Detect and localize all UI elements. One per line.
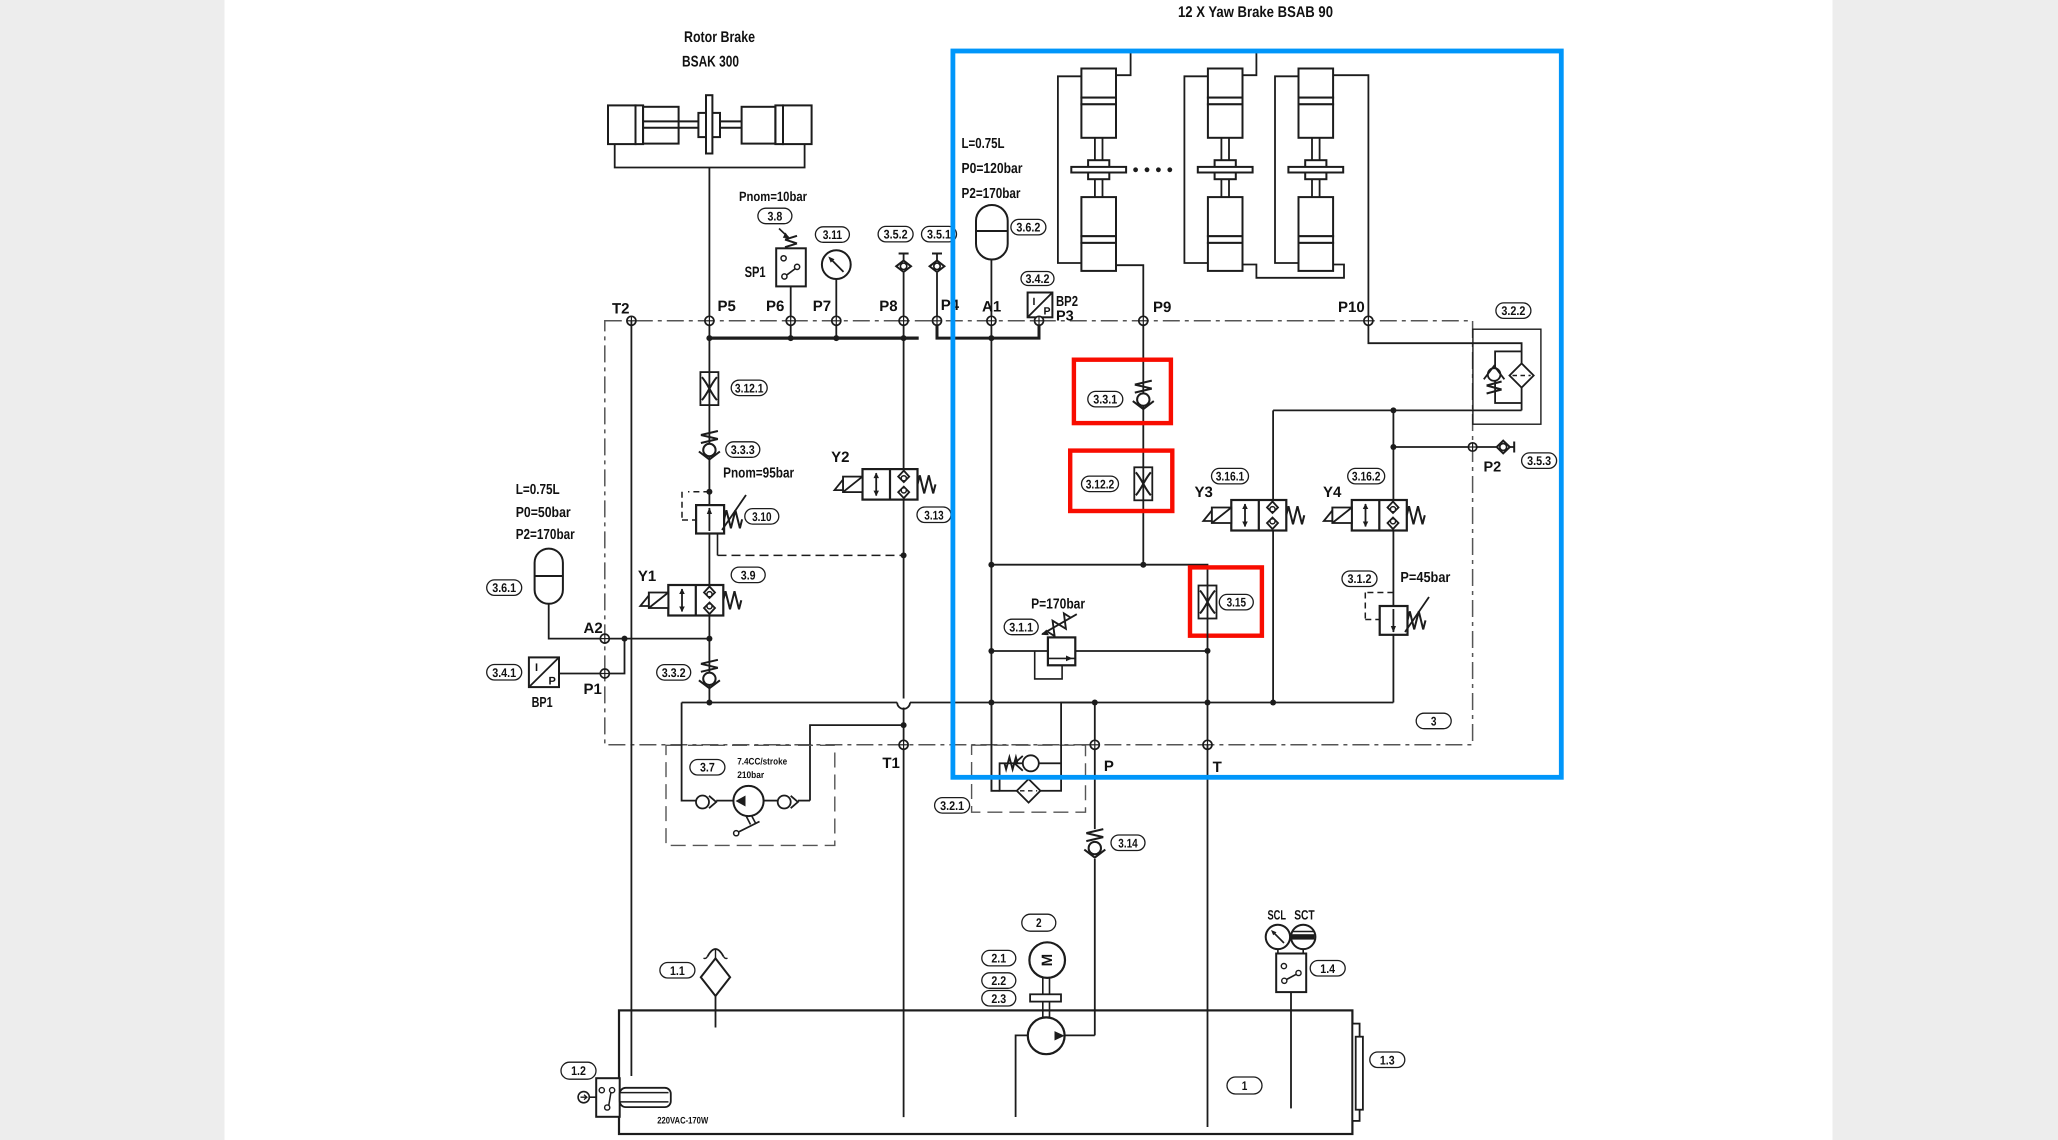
wire pump discharge riser xyxy=(810,725,904,801)
svg-text:M: M xyxy=(1039,954,1056,967)
filter element diamond of 3.2.1 xyxy=(1017,779,1041,803)
wire rotor brake bracket xyxy=(615,144,805,167)
svg-text:SP1: SP1 xyxy=(745,264,766,281)
solenoid valve Y2 3.13 xyxy=(863,469,918,500)
svg-text:P1: P1 xyxy=(584,681,602,698)
switch box 1.4 xyxy=(1277,949,1279,956)
accumulator 3.6.2 xyxy=(976,205,1008,260)
gauge SCL xyxy=(1266,925,1290,949)
node P1 xyxy=(600,669,609,678)
yaw brake cylinder 1 xyxy=(1058,69,1126,271)
wire Y4 column xyxy=(1392,410,1394,500)
check valve 3.3.3 xyxy=(701,431,718,443)
node T1 xyxy=(899,740,908,749)
svg-text:SCT: SCT xyxy=(1294,908,1315,923)
wire cylinder2-cylinder3 bottom connector xyxy=(1243,265,1345,278)
motor shaft and coupling 2.2/2.3 xyxy=(1042,978,1044,1018)
svg-text:Y2: Y2 xyxy=(831,449,849,466)
svg-text:P2: P2 xyxy=(1484,460,1502,476)
node P10 xyxy=(1364,316,1373,325)
svg-text:P3: P3 xyxy=(1056,309,1074,325)
bypass check valve of 3.2.1 xyxy=(1023,755,1039,771)
breather 1.1 xyxy=(715,996,717,1028)
svg-text:1.3: 1.3 xyxy=(1380,1053,1395,1067)
wire BP1 to P1 xyxy=(559,639,625,674)
svg-text:3.5.3: 3.5.3 xyxy=(1527,454,1551,468)
throttle 3.12.2 xyxy=(1134,467,1152,500)
svg-text:3.1.1: 3.1.1 xyxy=(1009,621,1033,635)
wire P2 branch xyxy=(1393,446,1496,448)
wire into filter 3.2.1 xyxy=(991,703,999,791)
wire A1 to 3.15 header y564.7 xyxy=(991,565,1207,585)
node A1 xyxy=(987,316,996,325)
wire 3.10 drain to pilot dash xyxy=(717,534,719,556)
svg-text:L=0.75L: L=0.75L xyxy=(516,482,560,498)
svg-text:P8: P8 xyxy=(879,298,897,315)
svg-text:P2=170bar: P2=170bar xyxy=(516,527,575,543)
wire accumulator to A2 xyxy=(549,604,710,639)
wire P10 to filter 3.2.2 xyxy=(1368,321,1521,352)
svg-text:7.4CC/stroke: 7.4CC/stroke xyxy=(737,757,787,768)
check valve 3.3.2 xyxy=(701,660,718,672)
svg-text:P2=170bar: P2=170bar xyxy=(962,186,1021,202)
wire P8/T1 column xyxy=(903,273,905,469)
svg-text:3.5.2: 3.5.2 xyxy=(884,228,908,242)
label 3 xyxy=(1416,713,1451,729)
tank 1 xyxy=(619,1010,1352,1134)
svg-text:BP1: BP1 xyxy=(532,695,553,711)
svg-text:3.15: 3.15 xyxy=(1227,596,1246,610)
svg-text:3.4.1: 3.4.1 xyxy=(492,666,516,680)
svg-text:P5: P5 xyxy=(718,298,736,315)
sensor BP2 3.4.2 xyxy=(1039,317,1041,338)
wire filter 3.2.2 output xyxy=(1521,403,1523,410)
wire P7 column xyxy=(835,279,837,338)
svg-text:3.16.1: 3.16.1 xyxy=(1216,470,1245,484)
node A2 xyxy=(600,634,609,643)
solenoid valve Y3 3.16.1 xyxy=(1231,500,1286,531)
svg-text:Y1: Y1 xyxy=(638,568,656,585)
pressure gauge 3.11 xyxy=(822,250,851,279)
throttle 3.12.1 xyxy=(700,372,718,405)
svg-text:3.9: 3.9 xyxy=(741,568,756,582)
wire cylinder1 bottom port to P9 xyxy=(1116,265,1143,321)
svg-text:P10: P10 xyxy=(1338,299,1365,316)
wire T2 column to tank xyxy=(630,321,632,1076)
svg-text:12 X Yaw Brake BSAB 90: 12 X Yaw Brake BSAB 90 xyxy=(1178,4,1333,21)
svg-text:T2: T2 xyxy=(612,301,630,318)
svg-text:T: T xyxy=(1213,759,1222,776)
svg-text:2.2: 2.2 xyxy=(991,974,1006,988)
wire rotor pressure bus y338 xyxy=(709,337,918,340)
heater 1.2 xyxy=(596,1078,620,1117)
svg-text:3.11: 3.11 xyxy=(823,228,842,242)
svg-text:3.8: 3.8 xyxy=(768,210,783,224)
svg-text:P: P xyxy=(1104,758,1114,775)
svg-text:3.12.2: 3.12.2 xyxy=(1086,477,1115,491)
rotor brake caliper BSAK 300 xyxy=(608,95,812,153)
svg-text:P: P xyxy=(1044,306,1051,318)
svg-text:P0=50bar: P0=50bar xyxy=(516,505,571,521)
wire relief header y651 xyxy=(991,650,1048,652)
svg-text:3.14: 3.14 xyxy=(1118,836,1137,850)
svg-text:SCL: SCL xyxy=(1268,908,1287,923)
svg-text:A1: A1 xyxy=(982,299,1001,316)
svg-text:BSAK 300: BSAK 300 xyxy=(682,54,739,71)
wire T column into tank xyxy=(1207,745,1209,1127)
wire Y3 column xyxy=(1272,410,1274,500)
wire 3.1.2 drain down to return xyxy=(1392,635,1394,703)
red highlight box 1 xyxy=(1074,360,1171,423)
wire pump suction xyxy=(1016,1035,1028,1117)
svg-text:2: 2 xyxy=(1036,916,1042,930)
hand pump check in xyxy=(696,796,709,809)
svg-text:3.5.1: 3.5.1 xyxy=(927,228,951,242)
pressure switch SP1 3.8 xyxy=(776,248,806,286)
svg-text:220VAC-170W: 220VAC-170W xyxy=(657,1116,708,1127)
node P8 xyxy=(899,316,908,325)
svg-text:1.1: 1.1 xyxy=(670,964,685,978)
dots ellipsis between cylinders xyxy=(1133,167,1138,172)
svg-text:P: P xyxy=(549,676,556,688)
svg-text:P4: P4 xyxy=(941,297,960,314)
svg-text:3.16.2: 3.16.2 xyxy=(1352,470,1381,484)
svg-text:P0=120bar: P0=120bar xyxy=(962,161,1023,177)
yaw brake cylinder 3 xyxy=(1275,69,1343,271)
node P4 xyxy=(933,316,942,325)
blue highlight box 12x yaw brake xyxy=(953,51,1561,777)
node P7 xyxy=(832,316,841,325)
solenoid valve Y1 3.9 xyxy=(668,585,723,616)
svg-text:3.3.2: 3.3.2 xyxy=(662,666,686,680)
wire dash-dot gauge line rectangle T2-P10-T1 loop xyxy=(605,321,1473,745)
svg-text:1: 1 xyxy=(1242,1079,1248,1093)
filter unit 3.2.1 dashed box xyxy=(972,745,1086,812)
solenoid valve Y4 3.16.2 xyxy=(1352,500,1407,531)
svg-text:3.2.1: 3.2.1 xyxy=(940,799,964,813)
node P3 xyxy=(1035,316,1044,325)
node P6 xyxy=(786,316,795,325)
svg-text:3.3.1: 3.3.1 xyxy=(1093,393,1117,407)
svg-text:1.4: 1.4 xyxy=(1320,962,1335,976)
wire A1 column xyxy=(990,260,992,321)
wire filter 3.2.1 output to P column xyxy=(1061,703,1095,764)
svg-text:Y4: Y4 xyxy=(1323,484,1342,501)
svg-text:3.12.1: 3.12.1 xyxy=(735,381,764,395)
svg-text:2.1: 2.1 xyxy=(991,952,1006,966)
level indicator 1.3 xyxy=(1352,1024,1359,1121)
svg-text:3.6.1: 3.6.1 xyxy=(492,581,516,595)
filter unit 3.2.2 xyxy=(1473,329,1541,424)
svg-text:Y3: Y3 xyxy=(1195,484,1213,501)
wire P column xyxy=(1094,703,1096,830)
node P xyxy=(1090,740,1099,749)
wire Y3/Y4 top header y410 xyxy=(1273,409,1522,411)
heating element of 1.2 xyxy=(620,1088,671,1107)
svg-text:Rotor Brake: Rotor Brake xyxy=(684,29,755,46)
svg-text:3.10: 3.10 xyxy=(752,510,771,524)
svg-text:Pnom=10bar: Pnom=10bar xyxy=(739,189,808,204)
svg-text:3.4.2: 3.4.2 xyxy=(1026,272,1050,286)
svg-text:I: I xyxy=(1033,296,1036,308)
electric motor 2.1 xyxy=(1029,942,1065,978)
svg-text:P6: P6 xyxy=(766,298,784,315)
svg-text:210bar: 210bar xyxy=(737,770,764,781)
yaw brake cylinder 2 xyxy=(1184,69,1252,271)
wire yaw pressure bus y338 xyxy=(937,321,1039,338)
svg-text:T1: T1 xyxy=(882,755,900,772)
svg-text:3.3.3: 3.3.3 xyxy=(731,443,755,457)
svg-text:P9: P9 xyxy=(1153,299,1171,316)
pump 2 xyxy=(1028,1017,1065,1054)
test coupling 3.5.2 xyxy=(899,253,909,255)
svg-text:3.7: 3.7 xyxy=(700,761,715,775)
wire P5 column xyxy=(708,321,710,703)
wire 1.4 into tank xyxy=(1290,992,1292,1108)
hand pump assembly 3.7 dashed box xyxy=(666,745,835,845)
relief valve 3.1.2 xyxy=(1365,592,1393,594)
gauge SCT xyxy=(1291,925,1315,949)
throttle 3.15 xyxy=(1199,586,1217,619)
wire 3.15 down to T column xyxy=(1207,619,1209,745)
svg-text:3: 3 xyxy=(1431,715,1437,729)
wire cylinder1 top port xyxy=(1116,53,1131,75)
hand pump 3.7 xyxy=(733,786,763,816)
pressure reducing valve 3.10 xyxy=(706,489,712,495)
wire P6 column xyxy=(790,286,792,338)
wire pump discharge to P column xyxy=(1065,1034,1095,1036)
relief valve 3.1.1 xyxy=(1035,651,1062,679)
node T xyxy=(1203,740,1212,749)
accumulator 3.6.1 xyxy=(535,549,563,604)
svg-text:3.13: 3.13 xyxy=(924,508,943,522)
node P9 xyxy=(1139,316,1148,325)
svg-text:P=170bar: P=170bar xyxy=(1031,597,1085,613)
red highlight box 3 xyxy=(1190,567,1262,635)
sensor BP1 3.4.1 xyxy=(529,657,559,687)
svg-text:3.1.2: 3.1.2 xyxy=(1348,572,1372,586)
wire return line y702 with jump over T1 column xyxy=(682,702,898,704)
wire pump suction from return line xyxy=(682,703,696,801)
svg-text:2.3: 2.3 xyxy=(991,992,1006,1006)
wire P9 column xyxy=(1142,321,1144,565)
test coupling 3.5.1 xyxy=(936,273,938,321)
node P5 xyxy=(705,316,714,325)
svg-text:I: I xyxy=(535,662,538,674)
svg-text:A2: A2 xyxy=(584,620,603,637)
svg-text:P7: P7 xyxy=(813,298,831,315)
junction pump discharge into Y2 column xyxy=(901,722,907,728)
hand pump check out xyxy=(764,800,778,802)
filter 3.2.1 loop xyxy=(1000,763,1062,791)
red highlight box 2 xyxy=(1070,451,1172,511)
svg-text:Pnom=95bar: Pnom=95bar xyxy=(723,466,794,482)
check valve 3.14 xyxy=(1086,829,1103,841)
wire cylinder2 top port xyxy=(1243,53,1257,75)
svg-text:3.6.2: 3.6.2 xyxy=(1016,221,1040,235)
svg-text:P=45bar: P=45bar xyxy=(1400,570,1450,586)
check valve 3.3.1 xyxy=(1135,381,1152,393)
test coupling 3.5.3 xyxy=(1497,441,1510,454)
svg-text:3.2.2: 3.2.2 xyxy=(1501,304,1525,318)
svg-text:1.2: 1.2 xyxy=(571,1064,586,1078)
svg-text:L=0.75L: L=0.75L xyxy=(962,136,1005,152)
wire cylinder3 top port to P10 xyxy=(1333,75,1368,321)
wire rotor brake supply (P5 column upper) xyxy=(708,168,710,321)
node T2 xyxy=(627,316,636,325)
